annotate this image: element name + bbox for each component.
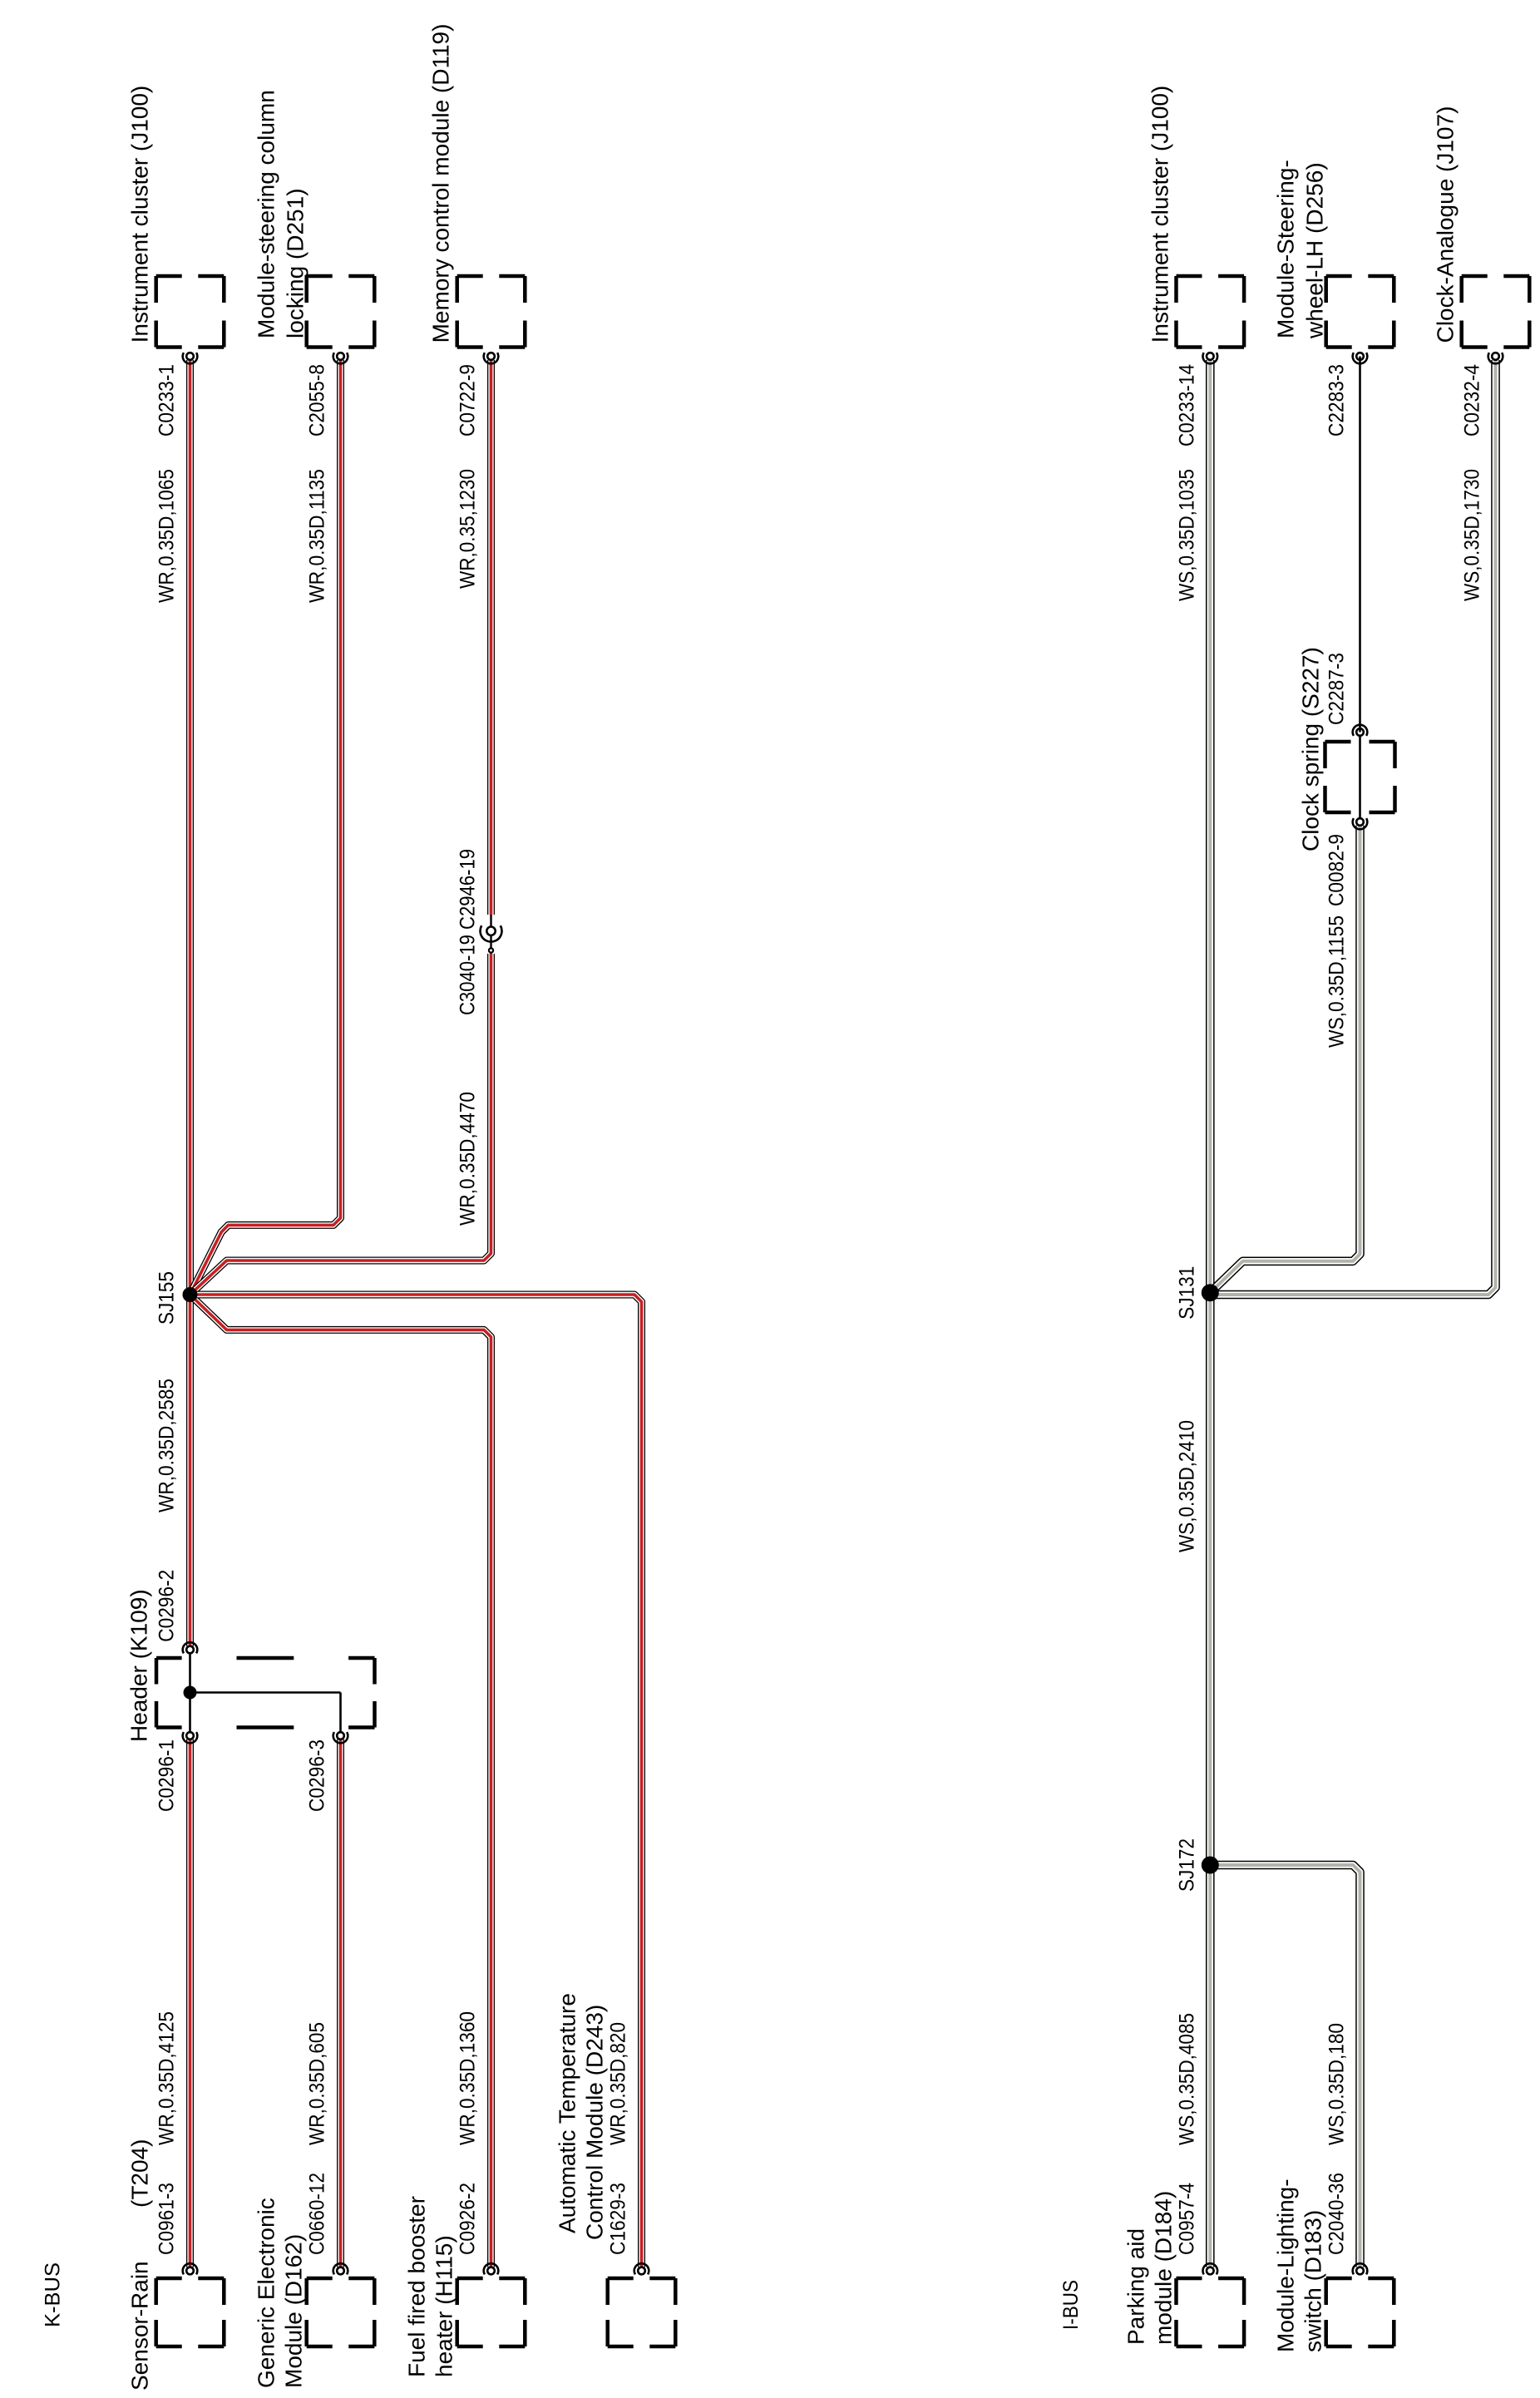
connector C0296-3: [306, 1732, 348, 1812]
svg-text:WR,0.35D,605: WR,0.35D,605: [306, 2022, 329, 2145]
connector C2287-3: [1325, 653, 1368, 736]
svg-text:Generic Electronic: Generic Electronic: [254, 2198, 279, 2388]
svg-text:C0961-3: C0961-3: [155, 2183, 179, 2255]
svg-text:C0233-14: C0233-14: [1175, 364, 1198, 447]
svg-text:C0232-4: C0232-4: [1461, 364, 1484, 437]
svg-text:C0957-4: C0957-4: [1175, 2183, 1198, 2255]
svg-text:C0296-2: C0296-2: [155, 1570, 179, 1642]
component Header (K109): [126, 1589, 375, 1742]
wire WS,0.35D,180 splice SJ172 to Module-Lighting-switch C2040-36: [1210, 1865, 1360, 2267]
svg-text:wheel-LH (D256): wheel-LH (D256): [1302, 162, 1328, 339]
component Module-steering column locking (D251) with pin C2055-8: [254, 90, 375, 603]
component Sensor-Rain (T204) with pin C0961-3: [127, 2011, 225, 2391]
wire WR,0.35D,820 splice SJ155 to Automatic Temperature Control Module C1629-3: [190, 1295, 642, 2267]
component Clock-Analogue (J107) with pin C0232-4: [1433, 106, 1530, 601]
svg-text:Instrument cluster (J100): Instrument cluster (J100): [127, 86, 153, 343]
svg-text:Memory control module (D119): Memory control module (D119): [428, 24, 454, 343]
svg-text:WS,0.35D,1035: WS,0.35D,1035: [1175, 469, 1198, 601]
svg-text:heater (H115): heater (H115): [432, 2235, 457, 2377]
wire WR,0.35D,1360 Fuel fired booster heater C0926-2 to splice SJ155: [190, 1295, 491, 2267]
wire WR,0.35D,2585 Header C0296-2 to splice SJ155: [186, 1295, 194, 1646]
svg-text:Parking aid: Parking aid: [1123, 2228, 1148, 2345]
connector inline C3040-19 C2946-19: [457, 849, 502, 1015]
component Module-Lighting-switch (D183) with pin C2040-36: [1273, 2023, 1394, 2352]
wire header internal bus: [190, 1650, 341, 1736]
svg-text:WR,0.35D,4125: WR,0.35D,4125: [155, 2011, 179, 2145]
splice SJ155: [155, 1271, 198, 1325]
wire WS,0.35D,4085 Parking aid module C0957-4 to splice SJ172: [1206, 1865, 1215, 2267]
connector C0296-1: [155, 1732, 198, 1812]
label WR,0.35D,2585: [155, 1379, 179, 1512]
svg-text:(T204): (T204): [127, 2139, 153, 2208]
svg-text:Module-steering column: Module-steering column: [254, 90, 279, 338]
component Memory control module (D119) with pin C0722-9: [428, 24, 526, 589]
component Automatic Temperature Control Module (D243) with pin C1629-3: [555, 1993, 676, 2346]
component Instrument cluster (J100) I-BUS with pin C0233-14: [1147, 86, 1244, 601]
svg-text:I-BUS: I-BUS: [1059, 2280, 1083, 2330]
svg-text:K-BUS: K-BUS: [42, 2262, 65, 2327]
svg-text:C0722-9: C0722-9: [457, 364, 480, 437]
wire WR,0.35D,4470 splice SJ155 to inline connector C3040-19: [190, 954, 491, 1295]
svg-text:WR,0.35D,1360: WR,0.35D,1360: [457, 2011, 480, 2145]
svg-text:SJ131: SJ131: [1175, 1266, 1198, 1320]
svg-text:Sensor-Rain: Sensor-Rain: [127, 2261, 153, 2391]
svg-text:C0296-3: C0296-3: [306, 1739, 329, 1812]
net I-BUS label: [1059, 2280, 1083, 2330]
svg-text:C3040-19 C2946-19: C3040-19 C2946-19: [457, 849, 480, 1015]
wire WR,0.35,1230 inline connector C2946-19 to Memory control module C0722-9: [487, 360, 495, 915]
svg-text:C0660-12: C0660-12: [306, 2173, 329, 2255]
svg-text:Clock-Analogue (J107): Clock-Analogue (J107): [1433, 106, 1459, 343]
svg-text:SJ172: SJ172: [1175, 1838, 1198, 1892]
svg-text:SJ155: SJ155: [155, 1271, 179, 1325]
connector C0082-9: [1325, 818, 1368, 906]
wire WS,0.35D,2410 splice SJ172 to splice SJ131: [1206, 1293, 1215, 1865]
wire clock spring internal: [1359, 733, 1361, 822]
svg-text:C2283-3: C2283-3: [1325, 364, 1349, 437]
svg-text:Module (D162): Module (D162): [281, 2234, 307, 2388]
svg-text:C2287-3: C2287-3: [1325, 653, 1349, 725]
svg-text:Clock spring (S227): Clock spring (S227): [1298, 647, 1324, 851]
wire WR,0.35D,605 Generic Electronic Module C0660-12 to Header C0296-3: [337, 1739, 344, 2267]
svg-text:WS,0.35D,1730: WS,0.35D,1730: [1461, 469, 1484, 601]
svg-text:locking (D251): locking (D251): [283, 188, 308, 338]
wire WS,0.35D,1155 splice SJ131 to Clock spring C0082-9: [1210, 826, 1360, 1293]
svg-text:C0082-9: C0082-9: [1325, 834, 1349, 906]
svg-text:module (D184): module (D184): [1150, 2191, 1176, 2345]
svg-text:WS,0.35D,1155: WS,0.35D,1155: [1325, 915, 1349, 1048]
svg-text:WS,0.35D,180: WS,0.35D,180: [1325, 2023, 1349, 2145]
connector C0296-2: [155, 1570, 198, 1654]
svg-text:Control Module (D243): Control Module (D243): [582, 2005, 608, 2240]
component Clock spring (S227): [1298, 647, 1395, 851]
wire WS,0.35D,1730 splice SJ131 to Clock-Analogue C0232-4: [1210, 360, 1495, 1295]
svg-text:switch (D183): switch (D183): [1301, 2210, 1326, 2352]
svg-text:C2040-36: C2040-36: [1325, 2173, 1349, 2255]
svg-text:WR,0.35D,820: WR,0.35D,820: [607, 2022, 630, 2145]
svg-text:C1629-3: C1629-3: [607, 2183, 630, 2255]
wire WR,0.35D,4125 Sensor-Rain C0961-3 to Header C0296-1: [186, 1739, 194, 2267]
label WS,0.35D,2410: [1175, 1420, 1198, 1552]
node header internal junction: [184, 1686, 197, 1700]
svg-text:C2055-8: C2055-8: [306, 364, 329, 437]
svg-text:Module-Steering-: Module-Steering-: [1273, 160, 1299, 338]
svg-text:C0926-2: C0926-2: [457, 2183, 480, 2255]
svg-text:Automatic Temperature: Automatic Temperature: [555, 1993, 580, 2233]
component Module-Steering-wheel-LH (D256) with pin C2283-3: [1273, 160, 1394, 437]
component Fuel fired booster heater (H115) with pin C0926-2: [404, 2011, 526, 2377]
wire WR,0.35D,1065 splice SJ155 to Instrument cluster C0233-1: [186, 360, 194, 1295]
svg-text:C0233-1: C0233-1: [155, 364, 179, 437]
svg-text:C0296-1: C0296-1: [155, 1739, 179, 1812]
wire WS,0.35D,1035 splice SJ131 to Instrument cluster C0233-14: [1206, 360, 1215, 1293]
component Instrument cluster (J100) K-BUS with pin C0233-1: [127, 86, 225, 603]
svg-text:WR,0.35,1230: WR,0.35,1230: [457, 469, 480, 589]
component Generic Electronic Module (D162) with pin C0660-12: [254, 2022, 375, 2388]
svg-text:WR,0.35D,4470: WR,0.35D,4470: [457, 1092, 480, 1226]
net K-BUS label: [42, 2262, 65, 2327]
svg-text:Fuel fired booster: Fuel fired booster: [404, 2196, 430, 2377]
svg-text:Module-Lighting-: Module-Lighting-: [1273, 2178, 1299, 2352]
wire link Clock spring C2287-3 to D256 C2283-3: [1359, 357, 1361, 733]
svg-text:WR,0.35D,1135: WR,0.35D,1135: [306, 469, 329, 603]
svg-text:WS,0.35D,2410: WS,0.35D,2410: [1175, 1420, 1198, 1552]
svg-text:WS,0.35D,4085: WS,0.35D,4085: [1175, 2013, 1198, 2145]
svg-text:Header (K109): Header (K109): [126, 1589, 152, 1742]
splice SJ172: [1175, 1838, 1219, 1892]
splice SJ131: [1175, 1266, 1219, 1320]
svg-text:WR,0.35D,1065: WR,0.35D,1065: [155, 469, 179, 603]
svg-text:WR,0.35D,2585: WR,0.35D,2585: [155, 1379, 179, 1512]
svg-text:Instrument cluster (J100): Instrument cluster (J100): [1147, 86, 1172, 343]
component Parking aid module (D184) with pin C0957-4: [1123, 2013, 1244, 2346]
wire WR,0.35D,1135 splice SJ155 to Module-steering column locking C2055-8: [190, 360, 341, 1295]
label WR,0.35D,4470: [457, 1092, 480, 1226]
label WS,0.35D,1155: [1325, 915, 1349, 1048]
